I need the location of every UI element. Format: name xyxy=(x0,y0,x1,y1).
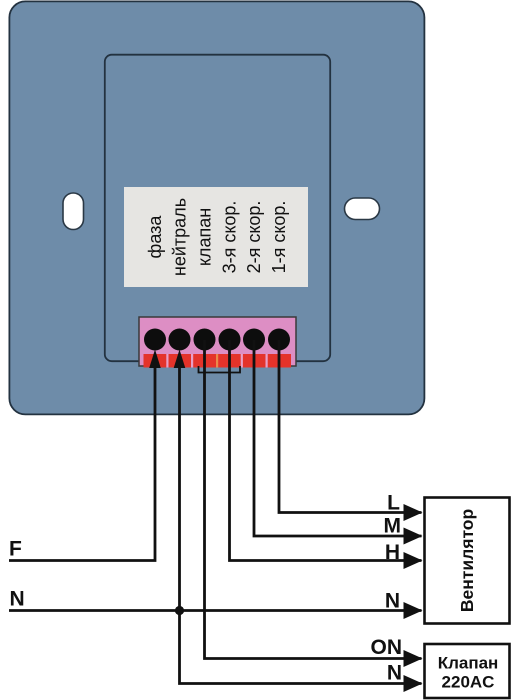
wire M (terminal 5 to fan) xyxy=(254,340,422,536)
terminal screw 1 (фаза) xyxy=(144,329,166,351)
right mounting hole xyxy=(345,198,380,220)
terminal screw 6 (1-я скор.) xyxy=(268,329,290,351)
svg-text:F: F xyxy=(9,538,22,561)
svg-text:фаза: фаза xyxy=(145,215,165,259)
terminal strip (red) xyxy=(144,354,292,368)
wire ON (terminal 3 to valve) xyxy=(205,340,422,659)
arrow N into valve xyxy=(404,675,423,692)
svg-text:Вентилятор: Вентилятор xyxy=(457,509,477,612)
wire F (terminal 1 to left) xyxy=(9,368,155,561)
terminal screw 5 (2-я скор.) xyxy=(243,329,265,351)
arrow M into fan xyxy=(404,528,423,545)
strip gap 3 xyxy=(241,354,243,368)
wire H (terminal 4 to fan) xyxy=(230,340,422,561)
junction dot N xyxy=(175,606,184,615)
svg-text:N: N xyxy=(10,588,25,611)
strip gap 4 xyxy=(266,354,268,368)
terminal label panel xyxy=(124,187,308,287)
svg-text:H: H xyxy=(385,541,400,564)
terminal screw 2 (нейтраль) xyxy=(169,329,191,351)
svg-text:220AC: 220AC xyxy=(442,673,495,692)
terminal screw 3 (клапан) xyxy=(194,329,216,351)
arrow into terminal 2 xyxy=(174,350,186,369)
wall-plate body xyxy=(9,1,424,414)
svg-text:нейтраль: нейтраль xyxy=(170,198,190,276)
arrow L into fan xyxy=(404,504,423,521)
jumper bracket terminals 3-4 xyxy=(199,366,241,373)
svg-text:2-я скор.: 2-я скор. xyxy=(244,201,264,274)
arrow N into fan xyxy=(404,602,423,619)
svg-text:L: L xyxy=(387,492,400,515)
fan box xyxy=(425,498,510,624)
terminal block xyxy=(139,317,296,366)
strip gap 2 xyxy=(191,354,193,368)
wire L (terminal 6 to fan) xyxy=(279,340,422,513)
strip slot (orange) xyxy=(216,354,218,368)
wire N main line (left to fan N) xyxy=(9,609,422,612)
arrow into terminal 1 xyxy=(149,350,161,369)
arrow ON into valve xyxy=(404,650,423,667)
svg-text:ON: ON xyxy=(371,636,403,659)
svg-text:N: N xyxy=(387,662,402,685)
left mounting hole xyxy=(63,193,84,230)
svg-text:N: N xyxy=(385,590,400,613)
arrow H into fan xyxy=(404,552,423,569)
wire N (terminal 2 down to valve N) xyxy=(180,368,422,684)
svg-text:3-я скор.: 3-я скор. xyxy=(220,201,240,274)
terminal screw 4 (3-я скор.) xyxy=(219,329,241,351)
inner panel xyxy=(105,55,330,362)
svg-text:M: M xyxy=(384,515,402,538)
valve box xyxy=(425,644,510,698)
svg-text:1-я скор.: 1-я скор. xyxy=(269,201,289,274)
svg-text:Клапан: Клапан xyxy=(438,654,499,673)
strip gap 1 xyxy=(166,354,168,368)
svg-text:клапан: клапан xyxy=(195,208,215,266)
